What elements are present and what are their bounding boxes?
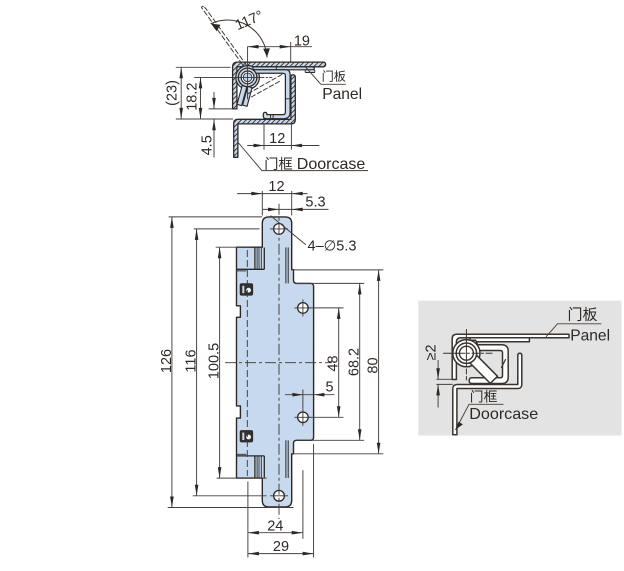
- dim 19 lines: [248, 46, 312, 48]
- dim 126 lines: [171, 217, 173, 508]
- svg-text:4–∅5.3: 4–∅5.3: [308, 239, 357, 255]
- hinge C-channel body: [466, 340, 508, 383]
- 117 degree arc: [211, 20, 267, 57]
- pin centerlines detail: [444, 330, 493, 381]
- hinge leaf flange bar: [470, 338, 529, 342]
- upper latch square: [240, 284, 252, 295]
- svg-text:Panel: Panel: [570, 328, 610, 345]
- arrows 48: [337, 308, 341, 319]
- hinge strap A: [237, 86, 247, 106]
- serration bottom: [237, 454, 265, 478]
- dim 68.2 lines: [359, 283, 361, 440]
- hinge leaf flange bar: [253, 67, 314, 70]
- svg-text:68.2: 68.2: [347, 348, 363, 376]
- leader panel top view: [306, 68, 346, 85]
- pin bore: [241, 71, 254, 84]
- tick marks on leaf: [271, 67, 291, 119]
- dim 100.5 lines: [219, 247, 221, 478]
- svg-text:48: 48: [326, 355, 342, 371]
- dim 12 top lines: [247, 145, 319, 147]
- svg-text:116: 116: [184, 349, 200, 372]
- arrows 19: [248, 45, 259, 49]
- svg-text:19: 19: [294, 33, 310, 49]
- arrows 5: [292, 393, 303, 397]
- svg-text:门板: 门板: [322, 68, 346, 83]
- centerlines: [225, 204, 332, 558]
- leader doorcase top view: [238, 142, 368, 171]
- hinge plate body: [237, 217, 314, 507]
- svg-text:5: 5: [325, 380, 333, 396]
- arrow doorcase leader detail: [455, 422, 463, 430]
- leader doorcase detail: [456, 404, 504, 430]
- serration top: [237, 248, 265, 271]
- doorcase (hatched) J-profile: [234, 75, 296, 158]
- arrows 24: [248, 531, 259, 535]
- dashed cap of open panel: [202, 6, 207, 9]
- arrows 12 top: [254, 144, 265, 148]
- arrows 68.2: [358, 283, 362, 294]
- open position dashed panel lines: [202, 8, 247, 66]
- panel (hatched) top bar + left wall: [233, 62, 326, 109]
- lower latch square: [240, 431, 252, 442]
- dim 24 line: [248, 532, 303, 534]
- arrows 12 front: [251, 192, 262, 196]
- doorcase profile (leg + flange + right wall): [453, 353, 522, 435]
- dashed ghost strap open: [248, 74, 283, 97]
- upper mid hole: [298, 303, 309, 314]
- svg-text:29: 29: [273, 539, 289, 555]
- wall tick: [502, 360, 506, 368]
- hinge C-channel: [253, 70, 290, 119]
- arrows >=2: [436, 368, 440, 379]
- arrows 29: [248, 552, 259, 556]
- svg-text:4.5: 4.5: [200, 135, 216, 155]
- leader 4-d5.3: [271, 216, 306, 245]
- hinge leaf under-step: [305, 70, 315, 73]
- svg-text:18.2: 18.2: [185, 83, 201, 111]
- hinge curl around pin: [236, 66, 260, 90]
- arrows 116: [195, 229, 199, 240]
- svg-text:80: 80: [366, 357, 382, 373]
- dim 18.2 line: [200, 77, 202, 119]
- leader panel detail: [546, 324, 601, 337]
- dim 12 front lines: [237, 193, 308, 195]
- pin ring: [238, 68, 257, 87]
- top ear hole: [274, 224, 285, 235]
- svg-text:24: 24: [267, 518, 283, 534]
- pin core: [243, 73, 252, 82]
- svg-text:(23): (23): [165, 80, 181, 106]
- dim 5 line: [285, 394, 335, 396]
- arrows 126: [170, 217, 174, 228]
- strap detail: [470, 355, 498, 383]
- panel profile (bar + folded wall): [452, 334, 569, 379]
- dim (23) lines: [180, 67, 182, 119]
- hinge curl detail: [453, 340, 480, 367]
- bend lines right platform: [286, 247, 288, 478]
- dim 29 line: [248, 553, 314, 555]
- arrows (23): [179, 67, 183, 78]
- arrows 80: [377, 270, 381, 281]
- svg-text:≥2: ≥2: [424, 344, 440, 360]
- hole crosshairs: [270, 229, 311, 496]
- gray background box: [418, 301, 621, 436]
- svg-text:126: 126: [159, 349, 175, 373]
- arrows 100.5: [218, 247, 222, 258]
- pin ring detail: [456, 343, 476, 363]
- svg-text:门板: 门板: [568, 306, 598, 324]
- svg-text:100.5: 100.5: [207, 343, 223, 379]
- arrows 18.2: [199, 77, 203, 88]
- svg-text:Panel: Panel: [322, 86, 362, 103]
- pin centerlines: [195, 47, 273, 101]
- arrows 4.5: [212, 98, 216, 109]
- svg-text:Doorcase: Doorcase: [469, 405, 538, 423]
- pin bore detail: [459, 346, 473, 360]
- hinge strap B: [243, 86, 252, 106]
- lower mid hole: [298, 412, 309, 423]
- arrows 5.3: [268, 208, 279, 212]
- svg-text:12: 12: [268, 179, 284, 195]
- svg-text:门框: 门框: [264, 157, 292, 173]
- svg-text:Doorcase: Doorcase: [297, 156, 366, 173]
- dim 48 lines: [338, 308, 340, 417]
- dim >=2 lines: [437, 360, 439, 379]
- dim 4.5 lines: [213, 92, 215, 109]
- svg-text:5.3: 5.3: [305, 195, 325, 211]
- bottom ear hole: [274, 490, 285, 501]
- dim 5.3 lines: [263, 208, 329, 210]
- svg-text:12: 12: [269, 131, 285, 147]
- dim 80 lines: [378, 270, 380, 454]
- dim 116 lines: [196, 229, 198, 496]
- svg-text:门框: 门框: [470, 390, 498, 405]
